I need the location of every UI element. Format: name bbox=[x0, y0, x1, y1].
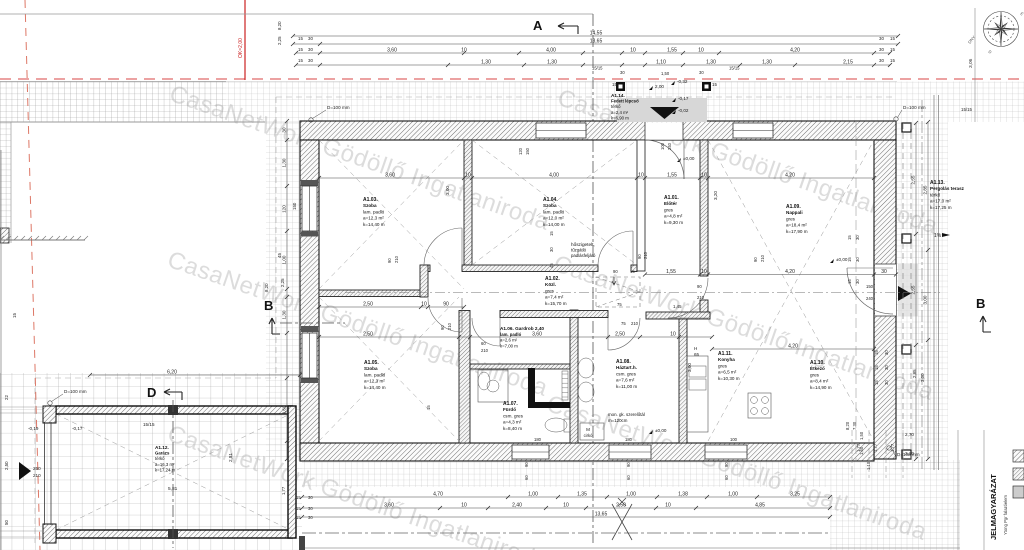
svg-text:3,00: 3,00 bbox=[687, 363, 692, 372]
svg-text:30: 30 bbox=[308, 47, 313, 52]
svg-text:60: 60 bbox=[724, 475, 729, 480]
svg-text:1,10: 1,10 bbox=[656, 60, 666, 66]
svg-text:90: 90 bbox=[613, 269, 618, 274]
svg-text:-0,32: -0,32 bbox=[677, 79, 688, 84]
svg-text:a=7,6 m²: a=7,6 m² bbox=[616, 378, 635, 383]
svg-text:90: 90 bbox=[524, 462, 529, 467]
svg-text:90: 90 bbox=[387, 258, 392, 263]
svg-text:Szoba: Szoba bbox=[363, 203, 377, 208]
svg-text:k=14,40 m: k=14,40 m bbox=[364, 385, 386, 390]
svg-text:4,20: 4,20 bbox=[788, 344, 798, 350]
svg-text:4,70: 4,70 bbox=[433, 492, 443, 498]
svg-text:1,55: 1,55 bbox=[667, 48, 677, 54]
svg-text:15/15: 15/15 bbox=[592, 66, 603, 71]
svg-text:3,60: 3,60 bbox=[385, 173, 395, 179]
svg-text:45: 45 bbox=[549, 263, 554, 268]
svg-text:60: 60 bbox=[524, 475, 529, 480]
svg-text:a=7,4 m²: a=7,4 m² bbox=[545, 295, 564, 300]
svg-text:10: 10 bbox=[630, 48, 636, 54]
svg-text:-0,02: -0,02 bbox=[678, 108, 689, 113]
svg-text:M: M bbox=[586, 427, 590, 432]
svg-text:210: 210 bbox=[631, 321, 639, 326]
svg-text:1,00: 1,00 bbox=[282, 255, 287, 264]
svg-text:1,55: 1,55 bbox=[666, 269, 676, 275]
svg-text:m=120cm: m=120cm bbox=[608, 418, 628, 423]
svg-text:15: 15 bbox=[426, 405, 431, 410]
svg-text:1,50: 1,50 bbox=[859, 431, 864, 440]
svg-text:A1.07.: A1.07. bbox=[503, 401, 518, 407]
svg-text:A1.06. Gardrob 2,40: A1.06. Gardrob 2,40 bbox=[500, 326, 544, 331]
svg-text:15: 15 bbox=[874, 350, 879, 355]
svg-text:1,00: 1,00 bbox=[528, 492, 538, 498]
svg-text:Fedett lépcső: Fedett lépcső bbox=[611, 99, 639, 104]
svg-text:2,15: 2,15 bbox=[843, 60, 853, 66]
svg-text:120: 120 bbox=[518, 147, 523, 155]
svg-text:Nappali: Nappali bbox=[786, 210, 803, 215]
svg-text:1,55: 1,55 bbox=[667, 173, 677, 179]
svg-text:JELMAGYARÁZAT: JELMAGYARÁZAT bbox=[989, 474, 998, 540]
svg-text:k=6,90 m: k=6,90 m bbox=[611, 115, 629, 120]
svg-text:Ytong Pgr falazóelem: Ytong Pgr falazóelem bbox=[1003, 494, 1008, 535]
svg-text:30: 30 bbox=[879, 36, 884, 41]
svg-text:Étkező: Étkező bbox=[810, 364, 825, 371]
svg-text:1,77: 1,77 bbox=[281, 486, 286, 495]
svg-text:±0,00: ±0,00 bbox=[655, 428, 667, 433]
svg-text:k=14,90 m: k=14,90 m bbox=[810, 385, 832, 390]
svg-text:15: 15 bbox=[890, 47, 895, 52]
svg-text:2,70: 2,70 bbox=[905, 432, 914, 437]
svg-text:1,30: 1,30 bbox=[282, 158, 287, 167]
svg-text:k=14,40 m: k=14,40 m bbox=[363, 222, 385, 227]
svg-text:15/15: 15/15 bbox=[961, 107, 973, 112]
svg-text:30: 30 bbox=[308, 58, 313, 63]
svg-text:15: 15 bbox=[630, 269, 635, 274]
svg-text:15: 15 bbox=[612, 82, 617, 87]
svg-text:1,00: 1,00 bbox=[626, 492, 636, 498]
svg-text:a=12,3 m²: a=12,3 m² bbox=[363, 216, 384, 221]
svg-text:2,50: 2,50 bbox=[615, 332, 625, 338]
svg-text:1%: 1% bbox=[934, 233, 942, 239]
svg-text:90: 90 bbox=[724, 462, 729, 467]
svg-text:60: 60 bbox=[481, 341, 486, 346]
svg-text:2,40: 2,40 bbox=[512, 503, 522, 509]
svg-text:10: 10 bbox=[461, 48, 467, 54]
svg-text:cirkó: cirkó bbox=[584, 433, 594, 438]
svg-text:-0,19: -0,19 bbox=[28, 426, 39, 431]
svg-text:k=10,30 m: k=10,30 m bbox=[718, 376, 740, 381]
svg-text:15: 15 bbox=[296, 515, 301, 520]
svg-text:30: 30 bbox=[881, 269, 887, 275]
svg-text:lam. padló: lam. padló bbox=[543, 209, 565, 214]
svg-text:45: 45 bbox=[277, 253, 282, 258]
svg-text:2,25: 2,25 bbox=[280, 278, 285, 287]
svg-text:250: 250 bbox=[33, 466, 41, 471]
svg-text:a=16,3 m²: a=16,3 m² bbox=[155, 462, 175, 467]
svg-text:Közl.: Közl. bbox=[545, 282, 556, 287]
svg-text:lam. padló: lam. padló bbox=[500, 332, 522, 337]
svg-text:15: 15 bbox=[847, 257, 852, 262]
svg-text:4,20: 4,20 bbox=[785, 173, 795, 179]
svg-text:a=6,5 m²: a=6,5 m² bbox=[718, 370, 737, 375]
svg-text:30: 30 bbox=[879, 47, 884, 52]
svg-text:-0,17: -0,17 bbox=[72, 426, 83, 431]
svg-text:150: 150 bbox=[866, 284, 874, 289]
svg-text:30: 30 bbox=[879, 58, 884, 63]
svg-text:A1.04.: A1.04. bbox=[543, 197, 558, 203]
svg-text:Háztart.h.: Háztart.h. bbox=[616, 365, 637, 370]
svg-text:mon. gk. szerelőtál: mon. gk. szerelőtál bbox=[608, 412, 645, 417]
svg-text:2,55: 2,55 bbox=[911, 285, 916, 294]
svg-text:6,20: 6,20 bbox=[167, 370, 177, 376]
svg-text:10: 10 bbox=[638, 173, 644, 179]
svg-text:30: 30 bbox=[308, 36, 313, 41]
svg-text:1,00: 1,00 bbox=[728, 492, 738, 498]
svg-text:B: B bbox=[976, 296, 985, 311]
svg-text:8,20: 8,20 bbox=[845, 421, 850, 430]
svg-text:30: 30 bbox=[884, 365, 889, 370]
svg-text:3,60: 3,60 bbox=[384, 503, 394, 509]
svg-text:3,60: 3,60 bbox=[387, 48, 397, 54]
svg-text:8,20: 8,20 bbox=[264, 283, 269, 292]
svg-text:Fürdő: Fürdő bbox=[503, 407, 516, 412]
svg-text:k=14,00 m: k=14,00 m bbox=[543, 222, 565, 227]
svg-text:10: 10 bbox=[465, 173, 471, 179]
svg-text:1,30: 1,30 bbox=[481, 60, 491, 66]
svg-text:A1.08.: A1.08. bbox=[616, 359, 631, 365]
svg-text:±0,00: ±0,00 bbox=[683, 156, 695, 161]
svg-text:90: 90 bbox=[443, 302, 449, 308]
svg-text:B: B bbox=[264, 298, 273, 313]
svg-text:a=18,4 m²: a=18,4 m² bbox=[786, 223, 807, 228]
svg-text:1,77: 1,77 bbox=[873, 443, 878, 452]
svg-text:15: 15 bbox=[847, 235, 852, 240]
svg-text:2,50: 2,50 bbox=[363, 332, 373, 338]
svg-text:210: 210 bbox=[394, 255, 399, 263]
svg-text:a=12,3 m²: a=12,3 m² bbox=[364, 379, 385, 384]
svg-text:75: 75 bbox=[621, 321, 626, 326]
svg-text:a=4,8 m²: a=4,8 m² bbox=[664, 214, 683, 219]
svg-text:D=100 mm: D=100 mm bbox=[64, 389, 87, 394]
svg-text:100: 100 bbox=[660, 142, 665, 150]
svg-text:lam. padló: lam. padló bbox=[364, 372, 386, 377]
svg-text:90: 90 bbox=[697, 284, 702, 289]
svg-text:90: 90 bbox=[637, 254, 642, 259]
svg-text:a=12,0 m²: a=12,0 m² bbox=[543, 216, 564, 221]
svg-text:15: 15 bbox=[874, 365, 879, 370]
svg-text:A1.12.: A1.12. bbox=[155, 445, 169, 450]
svg-text:10: 10 bbox=[665, 503, 671, 509]
svg-text:1,50: 1,50 bbox=[661, 71, 670, 76]
svg-text:a=2,6 m²: a=2,6 m² bbox=[500, 338, 518, 343]
svg-text:65: 65 bbox=[694, 352, 700, 357]
svg-text:térkő: térkő bbox=[155, 456, 165, 461]
svg-text:15: 15 bbox=[296, 495, 301, 500]
svg-text:3,00: 3,00 bbox=[445, 186, 450, 195]
svg-text:csm. gres: csm. gres bbox=[503, 413, 524, 418]
svg-text:k=9,30 m: k=9,30 m bbox=[664, 220, 683, 225]
svg-text:A1.09.: A1.09. bbox=[786, 204, 801, 210]
svg-text:D=100 mm: D=100 mm bbox=[897, 452, 920, 457]
svg-text:k=17,90 m: k=17,90 m bbox=[786, 229, 808, 234]
svg-text:2,00: 2,00 bbox=[655, 84, 664, 89]
svg-text:1,10: 1,10 bbox=[866, 461, 871, 470]
svg-text:gres: gres bbox=[718, 363, 728, 368]
svg-text:30: 30 bbox=[308, 495, 313, 500]
svg-text:150: 150 bbox=[292, 202, 297, 210]
svg-text:10: 10 bbox=[461, 503, 467, 509]
svg-text:8,20: 8,20 bbox=[277, 21, 282, 30]
svg-text:k=7,00 m: k=7,00 m bbox=[500, 343, 518, 348]
svg-text:75: 75 bbox=[617, 302, 622, 307]
svg-text:1,45: 1,45 bbox=[673, 304, 682, 309]
svg-text:15: 15 bbox=[296, 506, 301, 511]
svg-text:2,85: 2,85 bbox=[912, 369, 917, 378]
svg-text:10: 10 bbox=[701, 173, 707, 179]
svg-text:210: 210 bbox=[447, 322, 452, 330]
svg-text:4,85: 4,85 bbox=[755, 503, 765, 509]
svg-text:100: 100 bbox=[730, 437, 738, 442]
svg-text:3,00: 3,00 bbox=[920, 373, 925, 382]
svg-text:3,60: 3,60 bbox=[282, 405, 287, 414]
svg-text:1,35: 1,35 bbox=[577, 492, 587, 498]
svg-text:4,00: 4,00 bbox=[549, 173, 559, 179]
svg-text:térkő: térkő bbox=[611, 104, 621, 109]
svg-text:k=11,00 m: k=11,00 m bbox=[616, 384, 637, 389]
svg-text:Szoba: Szoba bbox=[364, 366, 378, 371]
svg-text:15: 15 bbox=[549, 231, 554, 236]
svg-text:4,00: 4,00 bbox=[546, 48, 556, 54]
svg-text:22: 22 bbox=[4, 395, 9, 400]
svg-text:2,50: 2,50 bbox=[363, 302, 373, 308]
svg-text:15/15: 15/15 bbox=[729, 66, 740, 71]
svg-text:Konyha: Konyha bbox=[718, 357, 735, 362]
svg-text:lam. padló: lam. padló bbox=[363, 209, 385, 214]
svg-text:4,20: 4,20 bbox=[790, 48, 800, 54]
svg-text:1,30: 1,30 bbox=[706, 60, 716, 66]
svg-text:10: 10 bbox=[670, 332, 676, 338]
svg-text:térkő: térkő bbox=[930, 192, 941, 197]
svg-text:15: 15 bbox=[12, 313, 17, 318]
svg-text:10: 10 bbox=[563, 503, 569, 509]
svg-text:30: 30 bbox=[282, 127, 287, 133]
svg-text:210: 210 bbox=[643, 251, 648, 259]
svg-text:180: 180 bbox=[534, 437, 542, 442]
svg-text:3,60: 3,60 bbox=[532, 332, 542, 338]
svg-text:30: 30 bbox=[884, 380, 889, 385]
svg-text:a=8,4 m²: a=8,4 m² bbox=[810, 379, 829, 384]
svg-text:A1.13.: A1.13. bbox=[930, 180, 945, 186]
svg-text:D=100 mm: D=100 mm bbox=[327, 105, 350, 110]
svg-text:k=8,40 m: k=8,40 m bbox=[503, 426, 522, 431]
svg-text:14,55: 14,55 bbox=[590, 31, 603, 37]
svg-text:4,20: 4,20 bbox=[785, 269, 795, 275]
svg-text:D=100 mm: D=100 mm bbox=[903, 105, 926, 110]
svg-text:3,06: 3,06 bbox=[968, 58, 974, 68]
svg-text:30: 30 bbox=[855, 257, 860, 262]
svg-text:A1.05.: A1.05. bbox=[364, 360, 379, 366]
svg-text:50: 50 bbox=[4, 520, 9, 525]
svg-text:1,30: 1,30 bbox=[762, 60, 772, 66]
svg-text:Garázs: Garázs bbox=[155, 451, 170, 456]
svg-text:2,25: 2,25 bbox=[277, 36, 282, 45]
svg-text:210: 210 bbox=[760, 254, 765, 262]
svg-text:30: 30 bbox=[855, 279, 860, 284]
svg-text:-0,17: -0,17 bbox=[678, 96, 689, 101]
svg-text:90: 90 bbox=[440, 325, 445, 330]
svg-text:a=17,0 m²: a=17,0 m² bbox=[930, 199, 951, 204]
svg-text:15: 15 bbox=[298, 36, 303, 41]
svg-text:1,30: 1,30 bbox=[282, 310, 287, 319]
svg-text:gres: gres bbox=[810, 372, 820, 377]
svg-text:60: 60 bbox=[626, 475, 631, 480]
svg-text:3,20: 3,20 bbox=[713, 191, 718, 200]
svg-text:15: 15 bbox=[847, 279, 852, 284]
svg-text:3,00: 3,00 bbox=[923, 295, 928, 304]
svg-text:A1.01.: A1.01. bbox=[664, 195, 679, 201]
svg-text:D: D bbox=[147, 385, 156, 400]
svg-text:30: 30 bbox=[855, 235, 860, 240]
svg-text:15: 15 bbox=[712, 82, 717, 87]
svg-text:15/15: 15/15 bbox=[143, 422, 155, 427]
svg-text:padlásfeljáró: padlásfeljáró bbox=[571, 253, 596, 258]
svg-text:15: 15 bbox=[890, 36, 895, 41]
svg-text:A1.02.: A1.02. bbox=[545, 276, 560, 282]
svg-text:1,38: 1,38 bbox=[678, 492, 688, 498]
svg-text:hőszigetelt,: hőszigetelt, bbox=[571, 242, 595, 247]
svg-text:240: 240 bbox=[667, 142, 672, 150]
svg-text:Pergolás terasz: Pergolás terasz bbox=[930, 186, 965, 191]
svg-text:3,25: 3,25 bbox=[790, 492, 800, 498]
svg-text:Szoba: Szoba bbox=[543, 203, 557, 208]
svg-text:30: 30 bbox=[620, 70, 625, 75]
svg-text:a=4,3 m²: a=4,3 m² bbox=[503, 420, 522, 425]
svg-text:A1.10.: A1.10. bbox=[810, 360, 825, 366]
svg-text:csm. gres: csm. gres bbox=[616, 371, 637, 376]
svg-text:150: 150 bbox=[525, 147, 530, 155]
svg-text:90: 90 bbox=[753, 257, 758, 262]
svg-text:120: 120 bbox=[282, 205, 287, 213]
svg-text:13,65: 13,65 bbox=[595, 512, 608, 518]
svg-text:30: 30 bbox=[308, 506, 313, 511]
svg-text:gres: gres bbox=[664, 207, 674, 212]
svg-text:k=15,70 m: k=15,70 m bbox=[545, 301, 567, 306]
svg-text:90: 90 bbox=[626, 462, 631, 467]
svg-text:H: H bbox=[694, 346, 697, 351]
svg-text:tűzgátló: tűzgátló bbox=[571, 248, 587, 253]
svg-text:k=17,25 m: k=17,25 m bbox=[930, 205, 952, 210]
svg-text:A: A bbox=[533, 18, 543, 33]
svg-text:OK=2,00: OK=2,00 bbox=[238, 38, 244, 58]
svg-text:gres: gres bbox=[786, 216, 796, 221]
svg-text:Előtér: Előtér bbox=[664, 201, 677, 206]
svg-text:a=2,4 m²: a=2,4 m² bbox=[611, 110, 629, 115]
svg-text:2,81: 2,81 bbox=[228, 453, 233, 462]
svg-text:2,85: 2,85 bbox=[923, 185, 928, 194]
svg-text:1,77: 1,77 bbox=[856, 443, 861, 452]
svg-text:10: 10 bbox=[701, 269, 707, 275]
svg-text:13,65: 13,65 bbox=[590, 39, 603, 45]
svg-text:A1.14.: A1.14. bbox=[611, 93, 625, 98]
svg-text:180: 180 bbox=[625, 437, 633, 442]
svg-text:210: 210 bbox=[33, 473, 41, 478]
svg-text:15: 15 bbox=[890, 58, 895, 63]
svg-text:30: 30 bbox=[884, 350, 889, 355]
svg-text:2,50: 2,50 bbox=[4, 461, 9, 470]
svg-text:210: 210 bbox=[481, 348, 489, 353]
svg-text:10: 10 bbox=[698, 48, 704, 54]
svg-text:30: 30 bbox=[308, 515, 313, 520]
svg-text:k=17,24 m: k=17,24 m bbox=[155, 467, 176, 472]
svg-text:15: 15 bbox=[874, 380, 879, 385]
svg-text:A1.03.: A1.03. bbox=[363, 197, 378, 203]
svg-text:15: 15 bbox=[298, 47, 303, 52]
svg-text:1,30: 1,30 bbox=[547, 60, 557, 66]
svg-text:10: 10 bbox=[421, 302, 427, 308]
svg-text:30: 30 bbox=[699, 70, 704, 75]
svg-text:15: 15 bbox=[298, 58, 303, 63]
svg-text:30: 30 bbox=[549, 247, 554, 252]
svg-text:A1.11.: A1.11. bbox=[718, 351, 733, 357]
svg-text:240: 240 bbox=[866, 296, 874, 301]
svg-text:210: 210 bbox=[697, 295, 705, 300]
svg-text:2,55: 2,55 bbox=[911, 175, 916, 184]
